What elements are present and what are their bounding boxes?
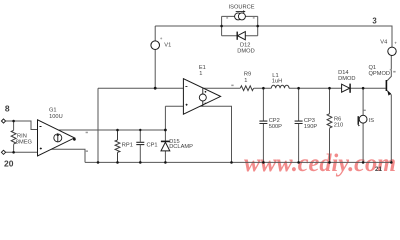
svg-text:DMOD: DMOD [237,48,254,54]
svg-text:3: 3 [372,17,377,26]
svg-text:CP1: CP1 [147,142,158,148]
svg-text:G1: G1 [49,108,57,114]
svg-text:+: + [394,41,397,46]
svg-text:ISOURCE: ISOURCE [229,5,255,11]
svg-text:DCLAMP: DCLAMP [169,144,193,150]
svg-text:DMOD: DMOD [338,76,355,82]
svg-text:QPMOD: QPMOD [369,71,391,77]
svg-text:RP1: RP1 [122,142,133,148]
svg-text:V1: V1 [164,42,171,48]
svg-text:D14: D14 [338,70,348,76]
svg-text:1uH: 1uH [272,79,282,85]
svg-text:8: 8 [5,103,10,113]
svg-text:1: 1 [244,78,247,84]
svg-text:100U: 100U [49,114,63,120]
svg-text:210: 210 [334,123,344,129]
svg-text:E1: E1 [199,65,206,71]
svg-text:1: 1 [199,71,202,77]
svg-text:R9: R9 [244,72,251,78]
svg-text:IS: IS [369,118,375,124]
svg-text:500P: 500P [269,124,282,130]
svg-text:190P: 190P [304,124,317,130]
svg-text:+: + [160,36,163,41]
svg-text:www.cediy.com: www.cediy.com [244,150,396,177]
svg-text:21: 21 [375,166,383,173]
svg-text:V4: V4 [380,39,387,45]
svg-text:8MEG: 8MEG [16,139,32,145]
svg-text:20: 20 [4,158,14,168]
